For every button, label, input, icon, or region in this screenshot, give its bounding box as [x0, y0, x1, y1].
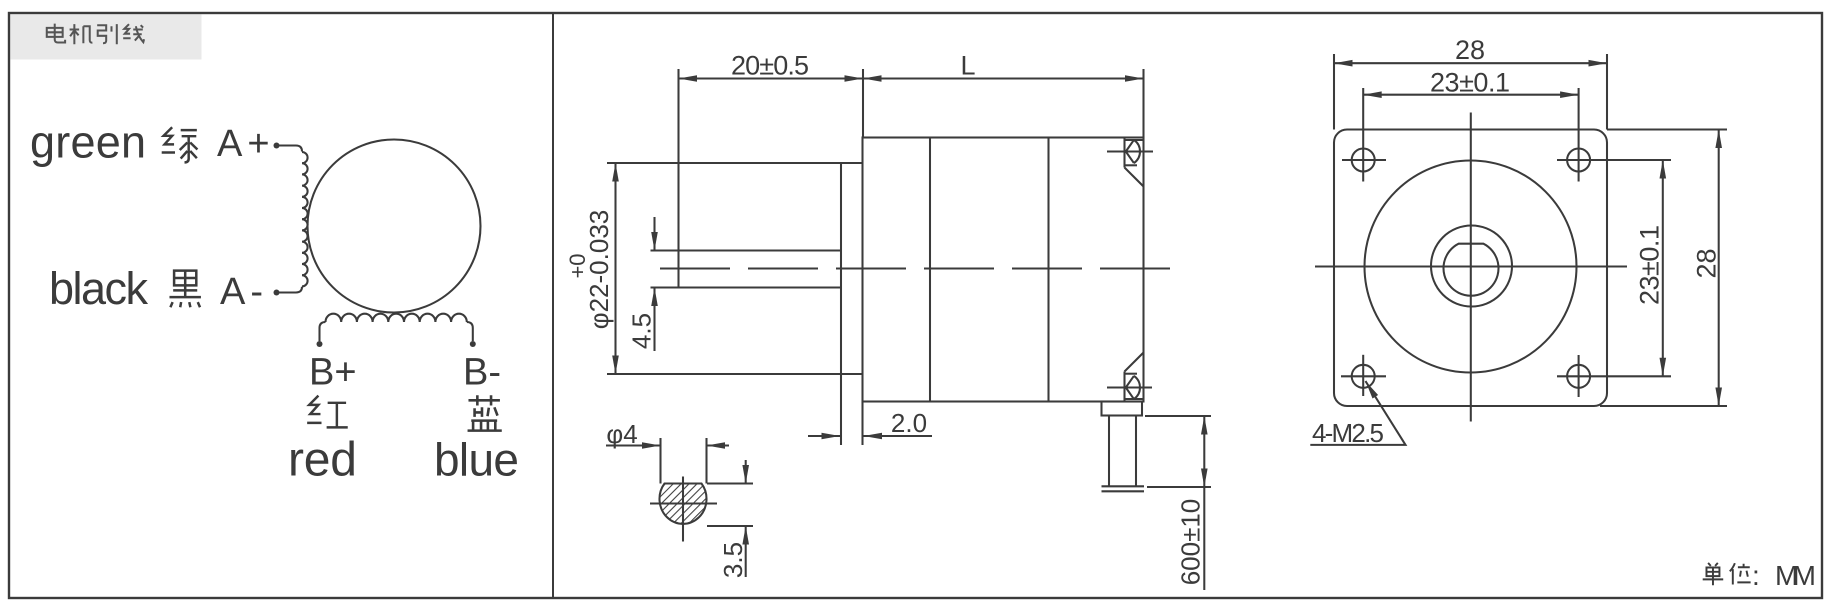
dim 600±10 extension lines: [1145, 415, 1211, 417]
hanzi 绿 (green): [162, 127, 198, 162]
dim 28 top line: [1334, 62, 1607, 64]
dim 20±0.5 line: [679, 77, 864, 79]
hanzi 电机引线 (motor lead wires) title: [47, 24, 144, 45]
screw hole bottom-right: [1567, 365, 1590, 388]
svg-text:A+: A+: [217, 123, 275, 165]
boss top edge + phi22 extension line: [607, 162, 863, 164]
coil A (vertical, phase A winding): [302, 152, 308, 286]
pilot circle phi22: [1365, 161, 1577, 373]
svg-text:+0: +0: [565, 253, 590, 278]
hanzi 单位 (unit) + colon + MM: [1703, 563, 1751, 585]
wire A+: [277, 146, 302, 152]
svg-text:4.5: 4.5: [627, 313, 657, 349]
terminal dot B+: [317, 341, 323, 347]
shaft cross-section (D-flat), hatched: [659, 484, 706, 524]
hanzi 红 (red): [307, 396, 348, 428]
title label box: [11, 15, 202, 60]
dim 3.5 lower segment: [745, 526, 747, 577]
dim 23±0.1 top line: [1363, 94, 1578, 96]
dim L line: [863, 77, 1144, 79]
dim 4.5 upper: [653, 217, 655, 251]
svg-text:A-: A-: [220, 271, 268, 313]
svg-text:20±0.5: 20±0.5: [731, 51, 809, 81]
center crosshair horizontal: [1315, 265, 1627, 267]
svg-text:23±0.1: 23±0.1: [1635, 225, 1665, 305]
body segment line 1: [929, 138, 931, 402]
body segment line 2: [1047, 138, 1049, 402]
dim 3.5 extension lines: [707, 482, 753, 484]
terminal dot B-: [470, 341, 476, 347]
svg-text:600±10: 600±10: [1176, 499, 1206, 586]
cross-section crosshair: [650, 502, 717, 504]
dim phi4 extension lines: [659, 438, 661, 484]
dim 28 right extension lines: [1607, 128, 1727, 130]
dim 28 right line: [1718, 130, 1720, 407]
svg-text:B+: B+: [309, 352, 357, 394]
svg-text::: :: [1752, 560, 1760, 591]
pilot boss left edge + 2.0 extension: [840, 163, 842, 374]
boss bottom edge + phi22 extension line: [607, 373, 863, 375]
lead-wire bundle: [1109, 416, 1136, 487]
center axis dashed line: [660, 267, 1173, 269]
shaft bottom edge: [651, 286, 842, 288]
svg-text:28: 28: [1692, 248, 1722, 278]
dim phi4 right segment: [707, 444, 730, 446]
dim 2.0 left segment: [808, 435, 840, 437]
svg-text:B-: B-: [463, 352, 501, 394]
svg-text:4-M2.5: 4-M2.5: [1312, 418, 1384, 448]
terminal dot A+: [274, 143, 280, 149]
lead-wire connector block: [1102, 402, 1143, 416]
motor circle: [308, 140, 481, 313]
screw bottom-right (side view): [1107, 353, 1152, 402]
bearing boss circle: [1431, 226, 1512, 307]
svg-text:2.0: 2.0: [891, 408, 927, 438]
dim 28 top extension lines: [1333, 54, 1335, 130]
screw hole top-left: [1352, 149, 1375, 172]
shared extension line between 20 and L: [862, 69, 864, 138]
wire A-: [277, 287, 302, 293]
svg-text:φ4: φ4: [606, 419, 637, 449]
wire B-: [467, 322, 473, 341]
hanzi 蓝 (blue): [468, 395, 502, 430]
svg-text:red: red: [288, 434, 357, 487]
screw top-right (side view): [1107, 138, 1153, 187]
motor body side view: [863, 138, 1144, 402]
shaft top edge: [651, 249, 842, 251]
dim phi4 left segment: [606, 444, 661, 446]
shaft circle with flat: [1443, 244, 1498, 296]
svg-text:L: L: [960, 51, 975, 81]
screw hole top-right: [1567, 149, 1590, 172]
screw hole bottom-left: [1352, 365, 1375, 388]
hanzi 黑 (black): [169, 271, 200, 308]
flange square: [1334, 130, 1607, 407]
L right extension line: [1142, 69, 1144, 138]
dim 3.5 upper segment: [745, 460, 747, 484]
dim phi22 line: [614, 163, 616, 374]
svg-text:28: 28: [1455, 35, 1485, 65]
terminal dot A-: [274, 290, 280, 296]
dim 2.0 right segment: [864, 435, 933, 437]
dim 4.5 lower: [653, 288, 655, 352]
panel divider: [552, 13, 554, 598]
dim 600±10 line: [1203, 416, 1205, 590]
center crosshair vertical: [1470, 113, 1472, 422]
coil B (horizontal, phase B winding): [326, 314, 467, 322]
4-M2.5 leader line: [1310, 381, 1405, 445]
shaft tip / 20-dim extension line: [677, 69, 679, 288]
svg-text:blue: blue: [434, 434, 519, 486]
wire end cap lines: [1102, 485, 1145, 487]
wire B+: [320, 322, 326, 341]
dim 23±0.1 right line: [1662, 160, 1664, 376]
svg-text:green: green: [30, 117, 146, 168]
svg-text:23±0.1: 23±0.1: [1430, 68, 1510, 98]
svg-text:black: black: [49, 263, 149, 314]
svg-text:MM: MM: [1775, 560, 1816, 591]
svg-text:3.5: 3.5: [718, 542, 748, 578]
